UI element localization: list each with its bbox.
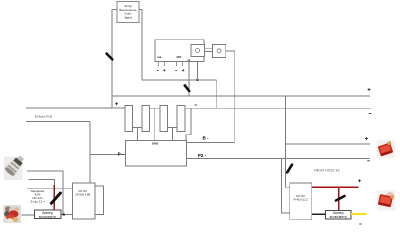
black wire U3 to M2: [312, 213, 326, 215]
wire photo2 to M1: [22, 214, 35, 216]
svg-text:МЗУ: МЗУ: [177, 56, 182, 59]
DC-DC converter U2 (left): [73, 183, 96, 219]
svg-text:вольтметр: вольтметр: [39, 215, 56, 219]
BMS box: [126, 141, 187, 167]
charge + output wire y=144: [286, 143, 371, 145]
relay link bars: [205, 48, 213, 51]
svg-text:Ампер: Ампер: [42, 211, 53, 215]
U1 pin polarity labels: [157, 70, 159, 72]
svg-text:вольтметр: вольтметр: [330, 215, 347, 219]
minus label at P2 wire end: [367, 160, 370, 162]
P2- wire: [187, 158, 370, 160]
switch box S1 text: [119, 4, 137, 19]
arrow at junction: [61, 213, 64, 216]
wire stub right of S1: [139, 9, 142, 11]
fuse F4: [336, 196, 345, 201]
M2 label: [330, 211, 347, 219]
BMS label: [152, 142, 158, 146]
wire M1 to DC-DC U2: [61, 214, 73, 216]
photo: XT60 connector top: [377, 140, 395, 159]
wire x=216.7 down to battery minus lead: [216, 80, 218, 108]
photo: XT60 connector bottom: [377, 190, 395, 210]
M1 label: [39, 211, 56, 219]
U1 label pev: [157, 56, 191, 62]
meter box M1: [34, 210, 61, 219]
B- wire: [187, 142, 235, 144]
wire stub left of S1: [112, 9, 117, 11]
svg-text:P -: P -: [118, 152, 124, 157]
wire from relay contact down to y=79.9: [196, 53, 198, 80]
charge port wire C to DC-DC: [27, 187, 73, 189]
junction dot: [196, 79, 198, 81]
P- wire: [90, 153, 126, 155]
svg-text:P2 -: P2 -: [198, 153, 207, 158]
wire x=90 from balance line down to DC-DC: [89, 122, 91, 184]
charge port wire B: [29, 179, 55, 188]
svg-text:50 4pins ПСБ: 50 4pins ПСБ: [35, 115, 53, 119]
charge port wire A: [27, 171, 63, 214]
B- step wire from minus lead to BMS: [186, 108, 191, 140]
red fused segment: [53, 185, 55, 210]
right output vertical from + bus: [285, 96, 290, 187]
vertical down to DC-DC input minus: [281, 159, 290, 213]
yellow wire from M2: [351, 213, 366, 215]
relay contact K1b: [212, 44, 225, 57]
plus label: [365, 137, 368, 140]
wire S1 left down to + bus and battery +: [111, 10, 113, 108]
fuse F2: [185, 85, 189, 91]
svg-text:пев: пев: [157, 56, 162, 59]
svg-text:Ампер: Ампер: [333, 211, 344, 215]
balance tap 1: [137, 127, 139, 140]
red tap down to voltmeter: [338, 187, 340, 210]
U2 side loop wire: [95, 186, 103, 215]
link B2-B3 top: [150, 107, 160, 109]
minus label near battery: [194, 104, 197, 106]
red output wire U3: [312, 186, 359, 188]
svg-text:B -: B -: [203, 136, 210, 141]
switch box S1 (ignition/key box top): [117, 2, 139, 23]
relay contact K1a: [191, 44, 205, 56]
battery + lead left: [26, 107, 125, 109]
plus label near battery: [115, 102, 118, 105]
fuse wire from U1 bottom to + bus: [188, 61, 190, 96]
U3 label: [294, 194, 309, 202]
fuse F3: [287, 165, 292, 173]
balance tap 3: [171, 127, 173, 140]
wire horizontal y=79.9: [142, 79, 217, 81]
fuse F1 on left S1 wire: [107, 54, 113, 60]
wire S1 right down: [141, 10, 143, 80]
balance label text: [35, 115, 53, 119]
P- label: [118, 152, 124, 157]
charger text block: [30, 189, 44, 204]
link B3-B4 bottom: [167, 126, 177, 128]
wire from K1b right: [226, 51, 235, 143]
U2 label: [75, 189, 90, 197]
battery cell B1: [125, 106, 133, 132]
DC-DC converter U3 (right): [290, 183, 312, 220]
svg-text:ИВЭП НО52-62: ИВЭП НО52-62: [314, 168, 340, 172]
plus label at bus right end: [368, 88, 371, 91]
+ bus y=96: [112, 95, 370, 97]
photo: connectors pile: [3, 205, 21, 223]
minus bus lead y=108 right: [185, 107, 371, 109]
fuse F5: [51, 193, 60, 203]
balance wire y=121.6: [26, 121, 90, 123]
battery cell B3: [160, 106, 167, 132]
B- label: [203, 136, 210, 141]
battery cell B2: [142, 106, 150, 132]
link B1-B2 bottom: [133, 126, 142, 128]
P2- label: [198, 153, 207, 158]
minus label right end: [369, 112, 372, 114]
U1 pins: [158, 61, 182, 66]
minus label below yellow: [359, 223, 362, 225]
controller box U1: [155, 40, 204, 62]
plus label red: [358, 179, 361, 182]
meter box M2: [325, 210, 351, 219]
svg-text:5ч до 12 ч: 5ч до 12 ч: [30, 200, 44, 204]
battery cell B4: [177, 106, 185, 132]
photo: charge port connector: [4, 153, 27, 180]
label HOBB: [314, 168, 340, 172]
balance tap 2: [154, 108, 156, 140]
